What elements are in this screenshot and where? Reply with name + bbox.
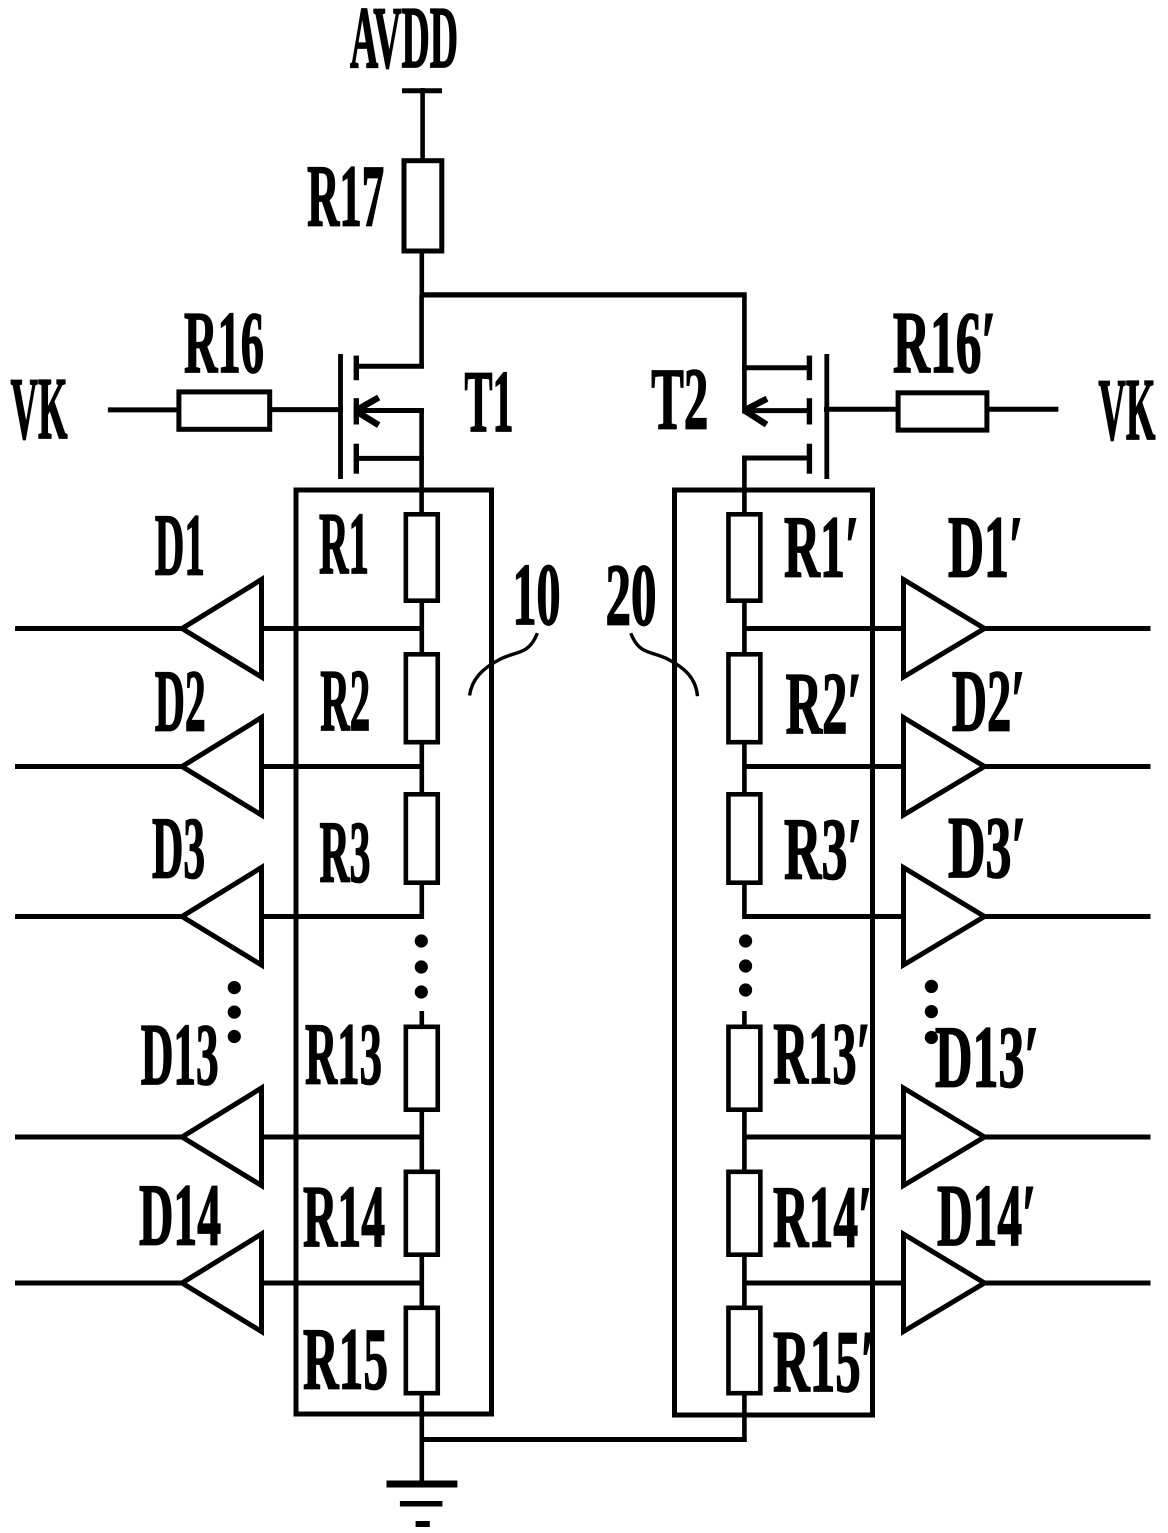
ellipsis dots left D column <box>228 981 241 994</box>
svg-text:D13′: D13′ <box>935 1009 1039 1106</box>
ellipsis dots right D column <box>925 980 938 993</box>
svg-text:R15: R15 <box>303 1311 388 1408</box>
resistor R13' <box>728 1027 760 1110</box>
wire row D2' right <box>744 764 1150 769</box>
power symbol AVDD bar <box>402 88 442 93</box>
resistor R16 <box>179 392 270 429</box>
block box 20 <box>675 490 873 1415</box>
svg-text:T2: T2 <box>651 352 708 449</box>
diode D13 <box>182 1088 262 1186</box>
svg-text:R16′: R16′ <box>893 295 996 392</box>
svg-text:D3: D3 <box>152 800 205 897</box>
ellipsis dots left ladder <box>415 934 428 947</box>
ellipsis dots right ladder <box>739 934 752 947</box>
resistor R3 <box>406 794 438 882</box>
svg-text:R14′: R14′ <box>773 1169 872 1266</box>
resistor R3' <box>728 794 760 882</box>
resistor R2 <box>406 654 438 742</box>
wire row D14' right <box>744 1281 1150 1286</box>
wire row D3 left <box>15 914 422 919</box>
svg-text:R16: R16 <box>184 295 264 392</box>
wire row D2 left <box>15 764 422 769</box>
block box 10 <box>296 490 492 1414</box>
svg-text:R2′: R2′ <box>786 656 862 753</box>
svg-text:R1′: R1′ <box>784 500 859 597</box>
resistor R1' <box>728 514 760 600</box>
wire R16' to VK <box>987 407 1059 412</box>
svg-text:10: 10 <box>513 547 561 644</box>
wire left ladder to ground node <box>419 1396 424 1487</box>
svg-text:D2: D2 <box>155 654 206 751</box>
wire left ladder segments <box>419 603 424 652</box>
transistor T2 <box>742 295 827 513</box>
diode D14' <box>904 1234 985 1332</box>
svg-text:T1: T1 <box>465 354 514 451</box>
svg-text:AVDD: AVDD <box>350 0 458 87</box>
wire right ladder to bottom rail <box>742 1396 747 1443</box>
svg-text:VK: VK <box>11 361 68 458</box>
resistor R15 <box>406 1308 438 1393</box>
svg-text:20: 20 <box>606 547 657 644</box>
diode D1 <box>182 580 262 678</box>
svg-text:R13: R13 <box>305 1006 382 1103</box>
resistor R14 <box>406 1172 438 1255</box>
diode D14 <box>182 1234 262 1332</box>
resistor R13 <box>406 1027 438 1110</box>
diode D3 <box>182 868 262 966</box>
wire R16 to T1 gate <box>270 407 343 412</box>
svg-text:VK: VK <box>1098 362 1155 459</box>
svg-text:R3: R3 <box>320 804 371 901</box>
wire row D1 left <box>15 626 422 631</box>
svg-text:D3′: D3′ <box>948 800 1026 897</box>
diode D13' <box>904 1088 985 1186</box>
svg-text:D14′: D14′ <box>937 1168 1036 1265</box>
diode D1' <box>904 580 985 678</box>
wire top rail <box>420 292 747 297</box>
svg-text:R13′: R13′ <box>773 1006 870 1103</box>
wire bottom rail <box>420 1437 747 1442</box>
resistor R15' <box>728 1308 760 1393</box>
resistor R14' <box>728 1172 760 1255</box>
diode D3' <box>904 868 985 966</box>
resistor R2' <box>728 654 760 742</box>
leader squiggle for 20 <box>631 633 698 696</box>
svg-text:D14: D14 <box>139 1168 221 1265</box>
wire VK to R16 <box>108 407 180 412</box>
diode D2' <box>904 718 985 816</box>
ground <box>387 1484 458 1524</box>
svg-text:D13: D13 <box>141 1007 219 1104</box>
svg-text:R14: R14 <box>303 1169 385 1266</box>
wire row D14 left <box>15 1281 422 1286</box>
resistor R16' <box>898 393 987 430</box>
svg-text:R17: R17 <box>307 148 384 245</box>
diode D2 <box>182 718 262 816</box>
svg-text:R15′: R15′ <box>773 1314 875 1411</box>
wire T2 gate to R16' <box>824 407 898 412</box>
leader squiggle for 10 <box>470 633 538 695</box>
wire right ladder segments <box>742 603 747 652</box>
wire R17 to top rail <box>419 251 424 297</box>
wire AVDD bar to R17 <box>420 88 425 162</box>
svg-text:D1′: D1′ <box>948 499 1023 596</box>
wire row D1' right <box>744 626 1150 631</box>
wire row D13 left <box>15 1135 422 1140</box>
svg-text:R3′: R3′ <box>784 801 862 898</box>
wire row D3' right <box>744 914 1150 919</box>
resistor R17 <box>404 161 442 251</box>
resistor R1 <box>406 514 438 600</box>
svg-text:D2′: D2′ <box>952 653 1025 750</box>
svg-text:D1: D1 <box>155 497 205 594</box>
wire row D13' right <box>744 1135 1150 1140</box>
svg-text:R2: R2 <box>320 653 370 750</box>
svg-text:R1: R1 <box>319 496 369 593</box>
transistor T1 <box>341 295 424 513</box>
